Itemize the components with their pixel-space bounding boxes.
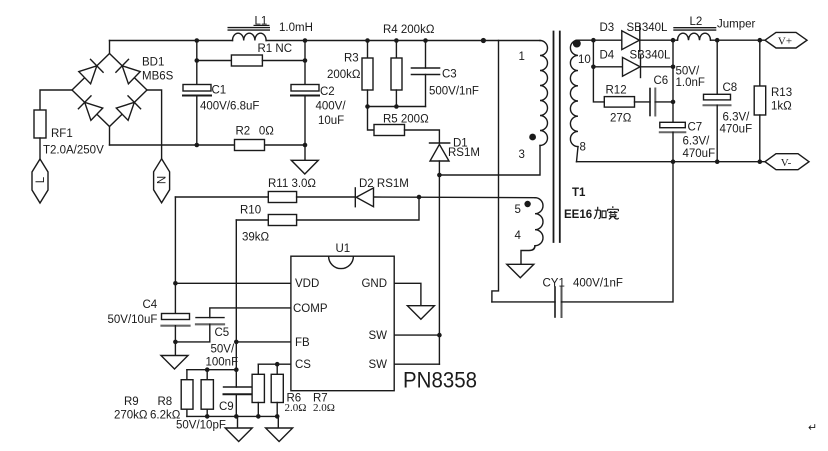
- svg-text:1kΩ: 1kΩ: [771, 101, 792, 113]
- resistor R4: [391, 41, 402, 107]
- svg-text:SW: SW: [368, 330, 387, 342]
- svg-text:CY1: CY1: [543, 278, 565, 290]
- wire COMP row: [210, 308, 291, 318]
- svg-text:8: 8: [580, 142, 586, 154]
- bridge BD1: [72, 54, 147, 127]
- svg-text:50V/: 50V/: [676, 66, 700, 78]
- inductor L2: [673, 28, 765, 41]
- svg-text:2.0Ω: 2.0Ω: [285, 402, 307, 414]
- svg-text:270kΩ: 270kΩ: [114, 410, 148, 422]
- wire bridge bottom stub: [109, 127, 111, 146]
- svg-text:L: L: [35, 176, 47, 183]
- diode D2: [355, 188, 373, 207]
- svg-text:L2: L2: [690, 16, 703, 28]
- svg-text:R1 NC: R1 NC: [258, 43, 293, 55]
- wire SW1: [394, 334, 439, 336]
- svg-text:EE16: EE16: [564, 209, 592, 221]
- svg-text:50V/10pF: 50V/10pF: [176, 420, 226, 432]
- svg-text:C8: C8: [723, 82, 738, 94]
- op-amp U1 IC body: [291, 256, 394, 391]
- svg-text:FB: FB: [295, 337, 310, 349]
- svg-text:R10: R10: [240, 205, 261, 217]
- terminal V+: [765, 32, 807, 48]
- svg-text:SB340L: SB340L: [627, 22, 669, 34]
- svg-text:C9: C9: [219, 401, 234, 413]
- svg-text:R5 200Ω: R5 200Ω: [383, 114, 429, 126]
- svg-text:200kΩ: 200kΩ: [327, 69, 361, 81]
- ground aux: [507, 264, 534, 278]
- ground under C2: [291, 145, 318, 174]
- resistor R7: [271, 364, 283, 416]
- svg-text:T2.0A/250V: T2.0A/250V: [43, 145, 104, 157]
- svg-text:T1: T1: [572, 187, 586, 199]
- resistor R10: [236, 197, 419, 226]
- transformer T1 primary: [540, 41, 548, 146]
- capacitor C7: [660, 122, 686, 161]
- svg-text:SB340L: SB340L: [630, 50, 672, 62]
- svg-text:1.0nF: 1.0nF: [676, 77, 705, 89]
- svg-text:N: N: [157, 176, 169, 184]
- wire D4 branch: [593, 40, 622, 67]
- svg-text:470uF: 470uF: [683, 148, 716, 160]
- wire bridge left to fuse: [40, 90, 72, 110]
- svg-text:↵: ↵: [808, 422, 817, 434]
- capacitor C1: [183, 41, 211, 146]
- ground under R7: [266, 416, 293, 441]
- wire bottom rail right: [265, 144, 306, 146]
- svg-text:D4: D4: [600, 50, 615, 62]
- wire R11 row: [175, 196, 268, 198]
- fuse RF1: [34, 110, 46, 138]
- resistor R9: [181, 370, 193, 417]
- svg-text:D2 RS1M: D2 RS1M: [359, 178, 409, 190]
- terminal N: [154, 159, 170, 203]
- resistor R6: [252, 364, 264, 416]
- transformer T1 aux winding: [535, 198, 543, 246]
- svg-text:PN8358: PN8358: [403, 368, 477, 393]
- wire R9 R8 rail: [187, 369, 236, 371]
- wire secondary pin8 down: [577, 147, 579, 162]
- ground IC: [407, 306, 434, 320]
- svg-text:C7: C7: [688, 122, 703, 134]
- svg-text:BD1: BD1: [142, 57, 164, 69]
- capacitor C6: [650, 89, 673, 116]
- diode D1: [430, 143, 450, 175]
- svg-text:R12: R12: [606, 85, 627, 97]
- label L1 underline: [254, 24, 270, 26]
- wire secondary bottom rail: [577, 161, 766, 163]
- svg-text:R9: R9: [124, 396, 139, 408]
- svg-text:2.0Ω: 2.0Ω: [313, 402, 335, 414]
- svg-text:R8: R8: [158, 396, 173, 408]
- svg-text:GND: GND: [361, 278, 387, 290]
- svg-text:10: 10: [578, 54, 591, 66]
- capacitor CY1: [555, 287, 562, 317]
- capacitor C8: [704, 40, 731, 162]
- diode D3: [622, 26, 673, 52]
- svg-text:1: 1: [519, 51, 525, 63]
- polarity dot secondary: [573, 40, 581, 48]
- resistor R11: [268, 192, 355, 203]
- svg-text:R3: R3: [344, 53, 359, 65]
- wire CS row: [258, 363, 291, 365]
- wire bridge right to N: [147, 90, 162, 159]
- svg-text:RF1: RF1: [51, 128, 73, 140]
- wire pin3 to D1: [439, 146, 540, 176]
- svg-text:C2: C2: [320, 86, 335, 98]
- wire VDD column: [174, 197, 176, 314]
- svg-text:3: 3: [519, 149, 525, 161]
- capacitor C2: [291, 41, 319, 146]
- wire CY1 right rail: [562, 162, 674, 302]
- svg-text:5: 5: [515, 204, 521, 216]
- wire FB column: [235, 220, 237, 387]
- wire primary top branch down: [492, 41, 499, 302]
- svg-text:6.3V/: 6.3V/: [723, 112, 751, 124]
- capacitor C5: [175, 318, 224, 342]
- wire GND pin: [394, 283, 421, 305]
- wire FB row: [236, 341, 291, 343]
- CJK 加宽: [594, 206, 619, 219]
- svg-text:R13: R13: [771, 87, 792, 99]
- svg-text:6.3V/: 6.3V/: [683, 136, 711, 148]
- capacitor C3: [412, 41, 440, 107]
- polarity dot aux: [524, 201, 530, 207]
- wire top rail mid: [266, 40, 540, 42]
- svg-text:400V/: 400V/: [316, 101, 347, 113]
- resistor R13: [754, 40, 766, 162]
- svg-text:100nF: 100nF: [206, 357, 239, 369]
- diode D4: [623, 56, 674, 78]
- svg-text:D3: D3: [600, 22, 615, 34]
- transformer T1 secondary: [570, 40, 578, 146]
- svg-text:0Ω: 0Ω: [259, 126, 274, 138]
- svg-text:27Ω: 27Ω: [610, 113, 632, 125]
- polarity dot primary: [529, 134, 536, 141]
- transformer core: [554, 32, 560, 243]
- svg-text:C3: C3: [442, 69, 457, 81]
- terminal L: [32, 159, 48, 203]
- svg-text:SW: SW: [368, 359, 387, 371]
- wire bottom rail: [187, 415, 277, 417]
- wire D2 row to aux pin5: [374, 196, 536, 199]
- svg-text:1.0mH: 1.0mH: [279, 22, 313, 34]
- resistor R1: [197, 55, 305, 66]
- wire fuse to L flag: [39, 138, 41, 159]
- svg-text:50V/: 50V/: [211, 344, 235, 356]
- resistor R5: [368, 107, 440, 144]
- wire snubber bottom: [368, 106, 426, 108]
- svg-text:50V/10uF: 50V/10uF: [108, 314, 158, 326]
- terminal V-: [765, 154, 809, 170]
- resistor R3: [362, 41, 373, 107]
- wire L2 / C7 column: [672, 40, 674, 122]
- svg-text:C5: C5: [215, 327, 230, 339]
- svg-text:470uF: 470uF: [720, 124, 753, 136]
- wire VDD row: [175, 282, 291, 284]
- svg-text:V+: V+: [778, 35, 792, 47]
- svg-text:COMP: COMP: [293, 303, 328, 315]
- svg-text:10uF: 10uF: [318, 115, 344, 127]
- wire D1 to SW: [438, 175, 440, 364]
- wire top rail left: [110, 40, 233, 42]
- svg-text:500V/1nF: 500V/1nF: [429, 86, 479, 98]
- capacitor C4: [162, 314, 190, 356]
- svg-text:39kΩ: 39kΩ: [242, 232, 270, 244]
- svg-text:R11 3.0Ω: R11 3.0Ω: [268, 178, 316, 190]
- resistor R8: [201, 370, 213, 417]
- wire bottom rail left: [110, 144, 235, 146]
- svg-text:VDD: VDD: [295, 278, 319, 290]
- ground under C4: [161, 356, 188, 370]
- svg-text:V-: V-: [781, 157, 792, 169]
- svg-text:C4: C4: [143, 299, 158, 311]
- resistor R2: [235, 140, 265, 151]
- svg-text:U1: U1: [336, 243, 351, 255]
- svg-text:400V/1nF: 400V/1nF: [573, 278, 623, 290]
- wire R12 branch: [593, 67, 604, 102]
- ground under C9: [225, 416, 252, 441]
- svg-text:4: 4: [515, 230, 522, 242]
- svg-text:RS1M: RS1M: [448, 147, 480, 159]
- svg-text:MB6S: MB6S: [142, 71, 174, 83]
- svg-text:400V/6.8uF: 400V/6.8uF: [200, 101, 259, 113]
- svg-text:CS: CS: [295, 359, 311, 371]
- svg-text:C6: C6: [654, 75, 669, 87]
- wire bridge top stub: [109, 41, 111, 54]
- wire D3 row: [578, 39, 622, 41]
- svg-text:R2: R2: [236, 126, 251, 138]
- wire SW2: [394, 363, 439, 365]
- svg-text:R4 200kΩ: R4 200kΩ: [383, 24, 435, 36]
- resistor R12: [604, 97, 650, 108]
- svg-text:C1: C1: [212, 85, 227, 97]
- wire CY1 left rail: [492, 301, 555, 303]
- wire aux pin4 to ground: [521, 246, 535, 265]
- svg-text:Jumper: Jumper: [717, 19, 756, 31]
- capacitor C9: [224, 387, 252, 416]
- inductor L1: [228, 28, 269, 41]
